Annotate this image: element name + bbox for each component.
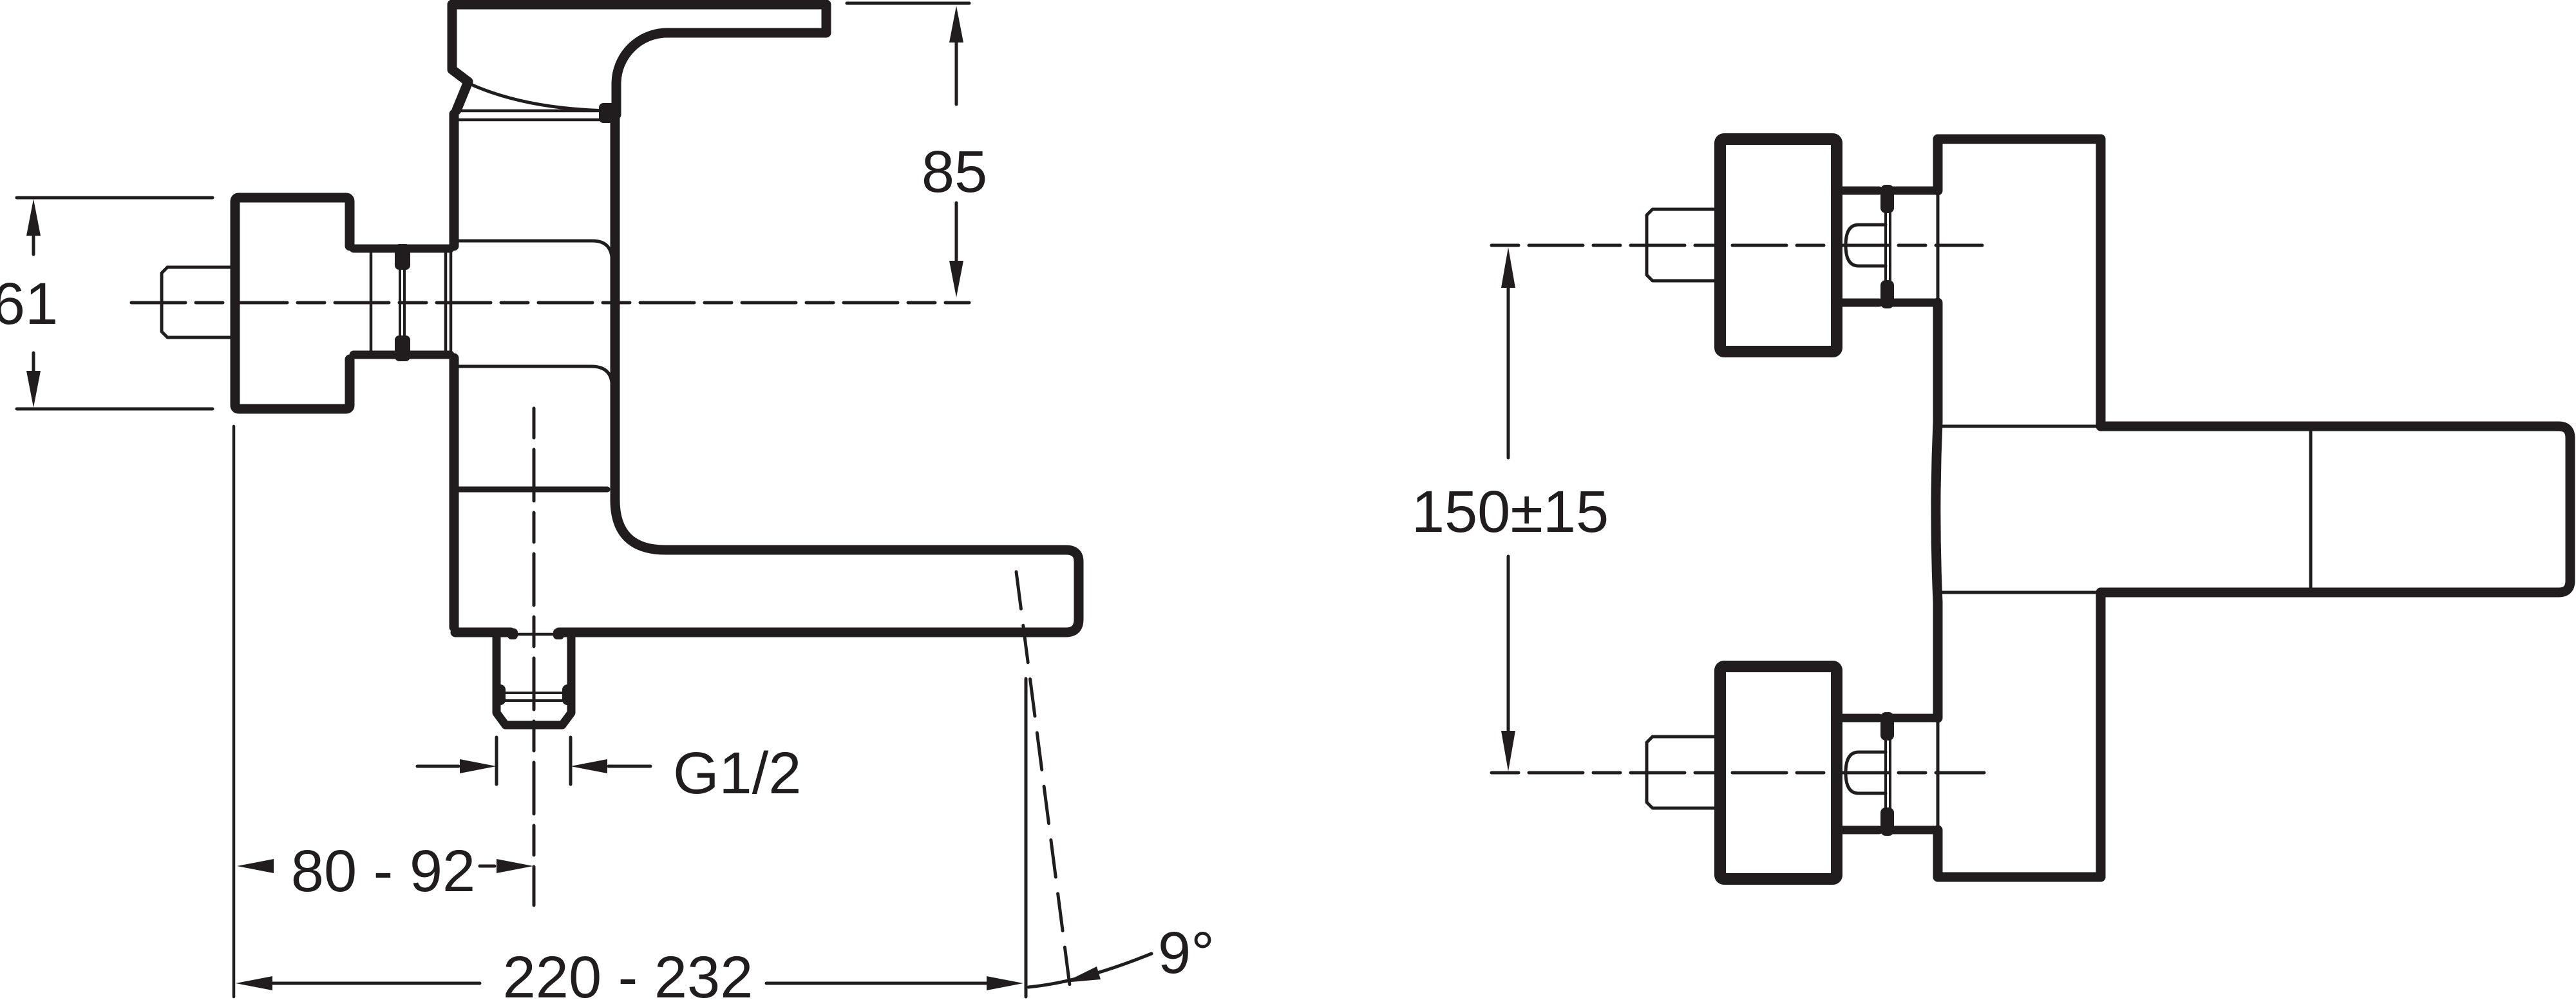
svg-text:85: 85 — [922, 139, 987, 205]
dimension 85 upper shaft and arrow — [955, 39, 958, 104]
svg-text:9°: 9° — [1158, 920, 1215, 986]
svg-text:80 - 92: 80 - 92 — [291, 838, 475, 904]
escutcheon (side view) — [235, 198, 350, 409]
union nut tab top — [395, 244, 410, 270]
dimension 80-92 right arrow and shaft — [480, 865, 495, 868]
svg-text:61: 61 — [0, 271, 58, 337]
escutcheon edge behind connector — [370, 252, 373, 351]
bottom escutcheon — [1720, 666, 1837, 879]
handle left edge — [452, 5, 468, 82]
dimension 80-92 left arrow — [237, 859, 274, 873]
svg-text:150±15: 150±15 — [1412, 479, 1609, 545]
body right edge pieces — [2096, 139, 2106, 877]
handle dome profile curve — [469, 84, 608, 111]
body right edge and spout outline — [559, 109, 1079, 632]
dimension 85 lower shaft and arrow — [955, 203, 958, 264]
body left edge pieces — [1936, 139, 1938, 877]
dimension 61 upper arrow — [32, 233, 35, 254]
top union blobs — [1880, 185, 1894, 213]
bottom union blobs — [1880, 712, 1894, 741]
bottom inlet centerline — [1492, 771, 1984, 775]
vertical reference line at spout tip — [1025, 679, 1028, 997]
handle lever outline — [452, 5, 826, 115]
dimension 220-232 right shaft and arrow — [766, 982, 988, 985]
spout bar — [2101, 426, 2570, 592]
wall supply pipe (side view) — [162, 267, 234, 337]
cap seam right junction blob — [599, 103, 618, 123]
cartridge seam line — [459, 366, 612, 382]
spout bottom edge left of outlet stub — [455, 628, 511, 637]
wall plane extension line — [232, 426, 236, 997]
dimension 61 lower arrow — [32, 353, 35, 373]
angle arc arrowhead — [1064, 967, 1101, 983]
angle arc 9 degrees — [1028, 954, 1151, 987]
outlet stub mouth thin line — [512, 633, 557, 636]
top inlet centerline — [1492, 244, 1982, 247]
spout bar divider line — [2309, 431, 2313, 587]
valve housing seam line — [459, 241, 612, 257]
9 degree tilted dashed line — [1016, 572, 1072, 1000]
spout lines across body (thin) — [1940, 426, 2101, 592]
outlet stub G1/2 — [497, 635, 571, 725]
top connector edges — [1837, 191, 1938, 303]
dimension 61 reference lines — [17, 198, 213, 409]
svg-text:220 - 232: 220 - 232 — [503, 945, 753, 1000]
top wall supply pipe — [1647, 209, 1720, 281]
top screw head — [1846, 225, 1886, 266]
svg-text:G1/2: G1/2 — [673, 741, 801, 806]
connector top edge — [354, 245, 450, 253]
body left edge upper — [450, 114, 459, 246]
union nut tab bottom — [395, 335, 410, 361]
body left edge lower — [450, 358, 459, 627]
dimension G1/2 left shaft and arrow — [417, 765, 459, 768]
dimension 150+-15 upper shaft and arrow — [1507, 287, 1510, 458]
body left edge thin behind connectors — [1937, 191, 1940, 830]
handle heel to body — [457, 82, 468, 110]
dimension 150+-15 lower shaft and arrow — [1507, 556, 1510, 734]
outlet axis centerline (vertical dashed) — [533, 408, 536, 905]
outlet joint tick left — [507, 628, 518, 639]
connector bottom edge — [354, 351, 450, 359]
top union seam lines — [1886, 213, 1890, 280]
body cap seam lower line — [459, 118, 603, 122]
bottom screw head — [1846, 752, 1886, 793]
body mid seam line — [459, 487, 607, 493]
body left edge thin pair behind connector — [446, 252, 451, 353]
inlet axis centerline (horizontal) — [131, 301, 969, 305]
union seam thin lines — [400, 264, 404, 341]
dimension 220-232 left arrow and shaft — [272, 982, 480, 985]
bottom union seam lines — [1886, 741, 1890, 807]
dimension G1/2 right arrow and shaft — [609, 765, 650, 768]
outlet thread knuckle left — [493, 684, 506, 705]
top escutcheon — [1720, 139, 1837, 352]
dimension G1/2 extension ticks — [497, 737, 571, 784]
bottom connector edges — [1837, 718, 1938, 830]
outlet thread knuckle right — [562, 684, 574, 705]
body cap seam upper line — [459, 109, 603, 113]
outlet thread relief lines — [497, 693, 571, 701]
bottom wall supply pipe — [1647, 737, 1720, 808]
body bottom edge — [1938, 873, 2101, 882]
outlet joint tick right — [553, 628, 564, 639]
body outline top edge — [1938, 135, 2101, 144]
dimension 85 reference line — [847, 2, 969, 5]
